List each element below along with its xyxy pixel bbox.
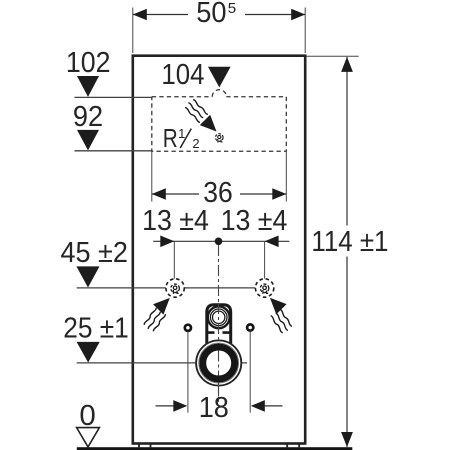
svg-text:50: 50 — [196, 0, 226, 28]
dim 36 extension lines — [152, 151, 286, 201]
dim 114 arrow up — [341, 57, 353, 72]
marker 102 triangle — [77, 76, 99, 97]
drop line to left water connection — [173, 241, 175, 278]
left water connection tap icon — [171, 284, 180, 294]
svg-text:18: 18 — [199, 391, 229, 423]
right water connection tap icon — [260, 284, 269, 294]
left bolt extension line — [187, 331, 189, 413]
svg-text:114 ±1: 114 ±1 — [311, 225, 388, 257]
right water flow arrow — [265, 293, 287, 315]
drop line to right water connection — [264, 241, 266, 278]
water inlet arrow in box — [200, 115, 222, 137]
marker 92 level line — [75, 150, 152, 152]
right fixing bolt — [247, 324, 253, 330]
left fixing bolt — [185, 325, 191, 331]
right bolt extension line — [249, 331, 251, 413]
left water connection dashed circle — [166, 279, 184, 297]
dim 13 arrow left — [160, 236, 174, 248]
svg-text:45 ±2: 45 ±2 — [60, 236, 127, 268]
drain outer circle — [196, 340, 241, 385]
svg-text:104: 104 — [161, 58, 204, 90]
dim 13 arrow right — [265, 236, 279, 248]
svg-text:92: 92 — [73, 100, 103, 132]
svg-text:25 ±1: 25 ±1 — [63, 311, 129, 343]
panel outline — [133, 56, 305, 444]
dim 50.5 extension lines — [133, 8, 305, 54]
drain socket dark ring — [203, 347, 235, 379]
dashed bump on box top — [212, 90, 226, 97]
marker 104 triangle — [208, 67, 231, 88]
marker 0 open triangle — [77, 428, 100, 447]
dim 18 line right — [264, 405, 283, 407]
dim 114 line — [346, 57, 348, 447]
dim 114 arrow down — [341, 432, 353, 447]
marker 45+-2 level line — [77, 287, 256, 289]
svg-text:13 ±4: 13 ±4 — [221, 204, 288, 236]
right foot — [287, 445, 299, 448]
marker 92 triangle — [77, 130, 99, 151]
dim 13 line — [153, 240, 289, 242]
floor line — [77, 447, 353, 450]
dim 18 arrow left — [173, 400, 187, 412]
vertical centerline — [218, 245, 220, 402]
svg-text:13 ±4: 13 ±4 — [142, 204, 209, 236]
dim 50.5 arrow left — [133, 9, 147, 21]
marker 25+-1 level line / drain centerline — [77, 362, 247, 364]
vertical centerline through drain — [218, 303, 220, 402]
dim 50.5 arrow right — [291, 9, 305, 21]
svg-text:2: 2 — [192, 136, 199, 151]
svg-text:1: 1 — [178, 126, 185, 141]
dim 36 line — [152, 193, 286, 195]
flush bend crossbar — [208, 331, 231, 334]
center reference dot — [215, 238, 223, 246]
svg-text:5: 5 — [228, 0, 236, 17]
dim 18 line left — [156, 405, 175, 407]
marker 25+-1 triangle — [77, 342, 100, 363]
dim 50.5 line — [133, 14, 305, 16]
dim 18 arrow right — [251, 400, 265, 412]
dim 114 top extension line — [307, 55, 359, 57]
tap icon in box — [216, 134, 224, 143]
marker 45+-2 triangle — [76, 266, 99, 287]
dashed service box — [152, 97, 286, 152]
svg-text:R: R — [163, 125, 178, 153]
right water connection dashed circle — [255, 279, 273, 297]
dim 36 arrow right — [272, 188, 286, 200]
left foot — [139, 445, 151, 448]
left water flow arrow — [153, 293, 175, 315]
svg-text:0: 0 — [79, 399, 95, 431]
flush bend fitting rings — [208, 306, 230, 328]
flush bend capsule — [207, 305, 231, 346]
svg-text:102: 102 — [66, 46, 111, 78]
dim 36 arrow left — [152, 188, 166, 200]
marker 102 level line — [75, 96, 152, 98]
